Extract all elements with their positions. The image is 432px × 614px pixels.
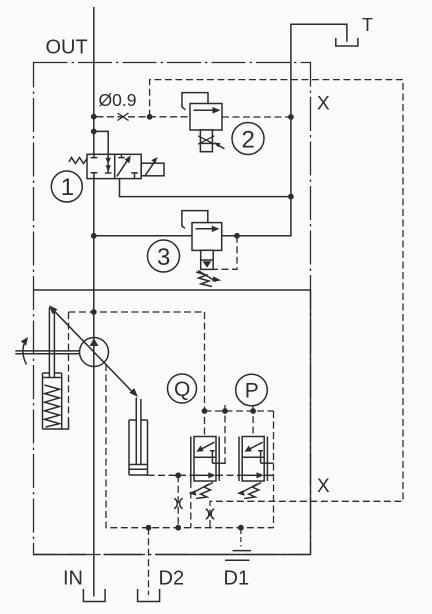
valve 1 right position internals [117,161,127,177]
port IN bracket [83,589,105,602]
spring valve P (adjustable) [240,483,262,499]
svg-text:X: X [317,94,330,115]
swashplate arrow (diagonal) [54,311,133,393]
spring valve 3 (adjustable) [196,271,216,287]
balloon 3 [148,240,180,272]
svg-text:X: X [317,476,330,497]
svg-text:OUT: OUT [46,36,88,58]
spring bias [45,385,60,427]
port D2 bracket [138,589,160,602]
valve 2 pilot arrow [218,145,225,149]
wire valve 3 feedback pilot (dashed) [214,236,237,269]
pump block solid border (top, right, bottom) [34,290,311,555]
valve 2 seat element [198,130,214,152]
boundary (outer chain-line envelope) [34,63,311,555]
wire pump case drain (dashed) to bottom manifold [106,364,274,528]
valve 1 pilot jog from main line [94,131,108,154]
svg-text:Q: Q [174,378,190,401]
wire valve 2 output (dashed to T-line) [222,116,289,118]
pump circle [80,338,109,367]
wire pilot to Q/P valves (dashed) [204,312,206,437]
wire pilot to bias cylinder (dashed) [68,312,70,421]
wire valve Q drain drop (dashed) [190,481,192,528]
control piston rod [136,398,141,465]
wire valve P tap stub [261,462,274,464]
valve 3 main box [192,223,222,251]
port D1 tank symbol [240,529,242,547]
node drain manifold junctions [146,525,244,531]
valve Q [191,437,219,482]
valve 3 internal arrow [196,228,213,230]
svg-text:Ø0.9: Ø0.9 [99,90,137,110]
valve 2 internal arrow [194,109,214,111]
wire control line control-piston to valve Q (dashed) [148,474,195,476]
balloon P [236,374,268,406]
node main line junctions [91,114,97,315]
valve 1 body [87,154,141,178]
wire X pilot loop (dashed rectangle path) [150,80,403,528]
valve 3 poppet element [201,250,214,269]
valve P [239,437,267,482]
bias piston cylinder [43,373,62,429]
wire right side pilot/drain column (dashed) [273,411,275,528]
spring valve 1 [69,158,87,164]
wire Q outlet sense riser (dashed) [224,405,226,463]
wire valve 1 output to T-line [120,179,291,197]
balloon Q [168,374,197,403]
wire between valve Q and valve P (dashed) [216,474,242,476]
svg-text:T: T [362,15,373,35]
solenoid valve 1 (proportional) [141,163,164,176]
node X-line tap [147,114,153,120]
wire T-line vertical down to valve 3 output [222,63,291,236]
svg-text:D1: D1 [224,568,250,590]
spring valve Q (adjustable) [192,483,214,499]
svg-text:1: 1 [61,174,74,201]
svg-text:2: 2 [242,127,255,154]
wire regulator pilot tee (dashed from main line) [69,311,205,313]
valve 2 main box [190,104,222,131]
control piston cylinder [129,420,148,475]
node valve 3 output tap [234,233,240,239]
wire valve 3 input from main line [97,235,193,237]
svg-text:3: 3 [157,244,170,271]
wire valve Q tap stub [212,462,226,464]
wire Q/P pilot header (dashed) [205,410,274,412]
port T line [291,24,347,62]
pump drive shaft [15,351,79,354]
valve 1 left position internals [91,154,98,178]
svg-text:P: P [245,380,259,403]
rotation arrow [23,344,27,365]
wire damping orifice drop 1 (dashed) [177,475,179,527]
wire valve P output to right column [264,474,273,476]
orifice on X drain leg [206,509,214,519]
valve 2 pilot bracket [182,93,208,110]
port D2 line (dashed) [148,528,150,595]
wire main OUT/IN vertical line [93,7,95,597]
valve 3 pilot bracket [182,211,208,229]
svg-text:D2: D2 [159,568,185,590]
balloon 1 [51,171,82,202]
pump outlet triangle [90,338,99,346]
wire pilot line with orifice (dashed, main line to valve 2) [97,116,191,118]
port T bracket [336,38,358,46]
wire P pilot drop (dashed) [252,406,254,437]
orifice 0.9 (cross) [118,113,129,121]
svg-text:IN: IN [63,568,83,590]
balloon 2 [232,123,264,155]
node T-line junctions [288,114,294,199]
bias piston rod [49,308,54,378]
